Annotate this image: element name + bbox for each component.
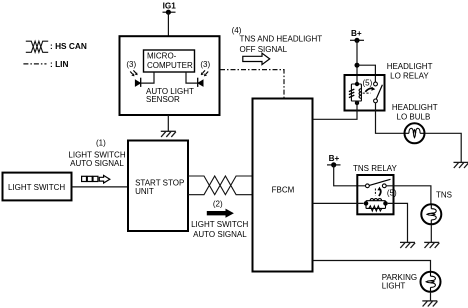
node junction dot [355,63,360,68]
ground G3 [400,242,415,248]
svg-text:MICRO-: MICRO- [147,52,177,61]
wire FBCM to parking light [313,261,431,273]
svg-text:UNIT: UNIT [135,187,154,196]
wire TNS bulb to ground [430,224,432,242]
headlight lo relay K1 box [345,75,385,111]
relay coil node dots [355,82,359,86]
svg-text:(5): (5) [363,79,373,88]
FBCM box [253,99,313,272]
parking light bulb [421,272,441,292]
svg-text:(5): (5) [387,189,397,198]
svg-text:: LIN: : LIN [50,59,68,69]
svg-text:HEADLIGHT: HEADLIGHT [392,103,438,112]
svg-text:(3): (3) [126,60,136,69]
wire FBCM to TNS relay coil [313,202,364,204]
svg-text:FBCM: FBCM [272,186,295,195]
svg-text:LIGHT: LIGHT [382,282,406,291]
svg-text:B+: B+ [351,29,362,38]
TNS bulb [421,204,441,224]
relay switch contacts [374,82,378,86]
ground G4 [424,242,439,248]
IG1 power terminal [163,10,176,15]
wire B+ to relay coil [356,40,358,84]
wire TNS relay switch to TNS bulb [386,186,431,205]
HS CAN twisted pair start stop unit to FBCM [188,176,253,195]
start stop unit box [128,141,188,232]
ground G1 [161,131,176,137]
svg-text:(1): (1) [96,138,106,147]
B+ terminal 1 [350,38,364,43]
TNS relay K2 box [357,175,393,214]
auto light sensor box [120,36,220,115]
open signal arrow (4) [243,53,270,64]
ground G2 [454,162,468,168]
svg-text:SENSOR: SENSOR [146,95,180,104]
svg-text:LIGHT SWITCH: LIGHT SWITCH [8,183,65,192]
wire bulb to ground [425,133,462,162]
B+ terminal 2 [327,162,341,167]
photodiode left [135,78,141,87]
svg-text:AUTO SIGNAL: AUTO SIGNAL [70,159,124,168]
svg-text:B+: B+ [329,154,340,163]
legend LIN dash-dot symbol [23,63,46,65]
svg-text:OFF SIGNAL: OFF SIGNAL [240,45,288,54]
TNS relay coil node dots [364,201,369,206]
svg-text:LO RELAY: LO RELAY [390,71,429,80]
relay coil and resistor parallel [349,84,362,101]
svg-text:IG1: IG1 [163,2,177,11]
photodiode right [198,78,204,87]
legend HS CAN twisted-pair symbol [26,41,48,52]
dash-dot LIN wire sensor to FBCM [220,70,284,99]
wire TNS relay coil to ground [388,203,408,242]
light arrows left [130,70,137,76]
relay switch blade [376,85,382,99]
data symbol squares and open arrow [82,175,110,183]
svg-text:(3): (3) [200,60,210,69]
svg-text:: HS CAN: : HS CAN [50,41,87,51]
svg-text:LIGHT SWITCH: LIGHT SWITCH [68,150,125,159]
solid signal arrow (2) [207,209,234,218]
svg-text:TNS RELAY: TNS RELAY [353,164,398,173]
light switch box [3,173,72,201]
micro-computer U1 [144,50,195,72]
svg-text:(2): (2) [213,200,223,209]
svg-text:LIGHT SWITCH: LIGHT SWITCH [191,220,248,229]
TNS relay switch blade [369,179,390,185]
svg-text:AUTO SIGNAL: AUTO SIGNAL [193,230,247,239]
wire junction to relay switch [357,65,375,82]
svg-text:LO BULB: LO BULB [397,113,431,122]
wire photodiode right to micro-computer [186,72,198,83]
svg-text:TNS AND HEADLIGHT: TNS AND HEADLIGHT [240,35,323,44]
TNS relay actuation arrow [379,189,381,196]
wire relay switch to bulb [376,103,405,134]
headlight lo bulb [405,123,425,143]
wire parking bulb to ground [430,292,432,301]
svg-text:TNS: TNS [436,191,452,200]
TNS relay coil and resistor parallel [366,199,386,211]
svg-text:COMPUTER: COMPUTER [147,61,193,70]
relay actuation arrow [365,88,372,92]
svg-text:(4): (4) [232,26,242,35]
wire photodiode left to micro-computer [141,72,154,83]
light arrows right [201,70,208,76]
wire IG1 to sensor box [167,12,169,36]
wire sensor box to ground [167,115,169,131]
wire relay coil to FBCM [313,101,358,119]
wire light switch to start stop unit [72,186,129,188]
wire B+ to TNS relay switch [334,165,366,186]
ground G5 [422,301,437,307]
svg-text:HEADLIGHT: HEADLIGHT [387,62,433,71]
TNS relay switch contacts [366,184,370,188]
